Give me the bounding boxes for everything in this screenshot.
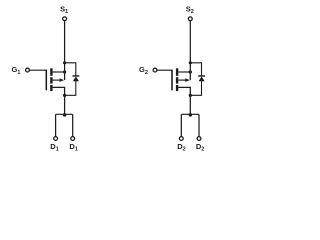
wire: drain lead and drain wire down <box>178 87 190 114</box>
terminal S1 <box>63 17 67 21</box>
gate bar <box>171 70 173 91</box>
diode D1b triangle (anode, pointing up) <box>73 77 79 82</box>
wire: bottom tee to both D2 pins <box>181 113 199 115</box>
wire: source lead <box>53 71 65 73</box>
terminal D1 (right) <box>71 137 75 141</box>
channel bar bottom <box>50 85 52 91</box>
channel bar top <box>176 68 178 76</box>
node: source/diode junction <box>189 61 192 64</box>
wire: right D2 drop <box>198 114 200 136</box>
wire: top branch to body diode <box>190 63 201 76</box>
wire: bottom tee to both D1 pins <box>56 113 73 115</box>
gate bar <box>45 70 47 91</box>
wire: source lead <box>178 71 190 73</box>
transistor Q2 (right P-channel MOSFET) <box>139 4 205 152</box>
wire: top branch to body diode <box>65 63 76 76</box>
arrow (P-channel, pointing right) <box>185 78 190 82</box>
node: drain tee <box>189 113 193 117</box>
node: drain/diode junction <box>189 94 192 97</box>
wire: body lead <box>178 79 186 81</box>
terminal D2 (right) <box>197 137 201 141</box>
wire: diode bottom back to drain wire <box>65 81 76 95</box>
wire: S2 terminal down to body-lead corner <box>189 21 191 80</box>
wire: body lead <box>53 79 61 81</box>
diode D1b cathode bar <box>73 75 80 76</box>
node: drain/diode junction <box>63 94 66 97</box>
channel bar middle <box>176 77 178 83</box>
channel bar top <box>50 68 52 76</box>
node: source lead tee <box>189 70 192 73</box>
diode D2b cathode bar <box>198 75 205 76</box>
transistor Q1 (left P-channel MOSFET) <box>12 4 80 152</box>
wire: right D1 drop <box>72 114 74 136</box>
node: source lead tee <box>63 70 66 73</box>
wire: left D2 drop <box>180 114 182 136</box>
node: drain tee <box>63 113 67 117</box>
wire: left D1 drop <box>55 114 57 136</box>
wire: drain lead and drain wire down <box>53 87 65 114</box>
terminal S2 <box>188 17 192 21</box>
wire: S1 terminal down to body-lead corner <box>64 21 66 80</box>
terminal D1 (left) <box>54 137 58 141</box>
arrow (P-channel, pointing right) <box>60 78 65 82</box>
wire: diode bottom back to drain wire <box>190 81 201 95</box>
terminal G1 <box>26 68 30 72</box>
terminal G2 <box>153 68 157 72</box>
channel bar middle <box>50 77 52 83</box>
node: source/diode junction <box>63 61 66 64</box>
diode D2b triangle (anode, pointing up) <box>199 77 205 82</box>
wire: gate lead <box>157 69 172 71</box>
wire: gate lead <box>30 69 47 71</box>
terminal D2 (left) <box>179 137 183 141</box>
channel bar bottom <box>176 85 178 91</box>
